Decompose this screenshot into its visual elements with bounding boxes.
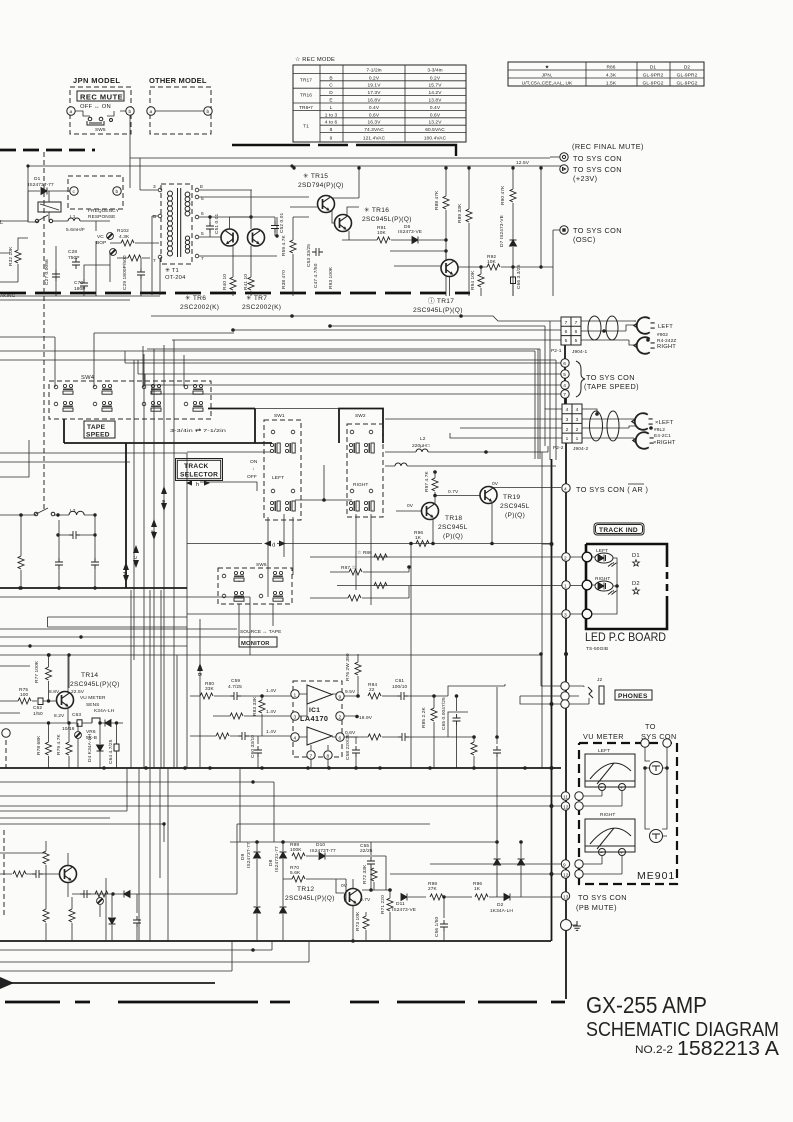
svg-text:R41 10: R41 10: [243, 274, 249, 290]
svg-text:R38 470: R38 470: [281, 270, 287, 289]
svg-text:6: 6: [565, 329, 568, 335]
svg-text:0V: 0V: [341, 883, 348, 889]
svg-text:TS-50GIB: TS-50GIB: [586, 646, 608, 652]
svg-text:R32 10K: R32 10K: [8, 246, 14, 266]
svg-text:D: D: [329, 90, 333, 96]
svg-text:R83 33K: R83 33K: [252, 696, 258, 716]
pin 13 PB MUTE: [561, 892, 569, 900]
dashed edge mark: [3, 830, 5, 915]
resistor vertical2: [43, 909, 49, 922]
wire led/vu feeds from bus: [542, 543, 552, 545]
svg-text:4: 4: [563, 383, 566, 389]
svg-text:R88 47K: R88 47K: [434, 190, 440, 210]
wire pp collectors: [230, 190, 278, 277]
svg-text:8: 8: [327, 754, 330, 760]
wire emitter rail: [0, 291, 251, 300]
svg-text:3: 3: [153, 184, 156, 190]
svg-text:e: e: [161, 500, 167, 503]
wire monitor rail: [187, 544, 552, 769]
svg-text:C51 0.01: C51 0.01: [214, 213, 220, 234]
table text: [299, 67, 447, 141]
wire shielded pair 1: [581, 321, 636, 340]
svg-text:VU METER: VU METER: [583, 732, 624, 741]
svg-text:2: 2: [576, 427, 579, 433]
svg-text:16.3V: 16.3V: [367, 120, 381, 126]
arrow d2: [264, 541, 286, 547]
svg-text:SENS: SENS: [86, 702, 99, 708]
svg-text:5: 5: [565, 338, 568, 344]
svg-text:0.7V: 0.7V: [360, 897, 371, 903]
svg-text:14.2V: 14.2V: [428, 90, 442, 96]
wire to transformer: [56, 241, 141, 296]
svg-text:OFF: OFF: [247, 474, 257, 480]
svg-text:TRACK IND: TRACK IND: [599, 527, 638, 534]
arrow g: [197, 663, 203, 671]
svg-text:ME901: ME901: [637, 870, 675, 882]
diode feed: [124, 891, 130, 898]
diode bottom: [109, 918, 116, 924]
bottom transistor Q: [60, 866, 77, 883]
svg-text:4.3K: 4.3K: [119, 234, 130, 240]
svg-text:750P: 750P: [68, 255, 80, 261]
wire: [0, 853, 237, 897]
svg-text:MONITOR: MONITOR: [241, 641, 270, 647]
svg-text:TO SYS CON: TO SYS CON: [573, 165, 622, 174]
svg-text:NO.2-2: NO.2-2: [635, 1044, 673, 1056]
svg-text:1.4V: 1.4V: [266, 729, 277, 735]
svg-text:7-1/2in: 7-1/2in: [366, 67, 382, 73]
svg-text:R59 4.7K: R59 4.7K: [281, 234, 287, 256]
svg-text:9: 9: [563, 863, 566, 869]
svg-text:18.9V: 18.9V: [359, 715, 373, 721]
wire top rail TR12: [230, 841, 497, 843]
transistor TR18: [422, 503, 439, 520]
wire: [75, 111, 126, 116]
wire: [28, 190, 70, 192]
svg-text:R79 4.7K: R79 4.7K: [56, 733, 62, 755]
svg-text:JPN,: JPN,: [542, 73, 553, 79]
svg-text:R72 33K: R72 33K: [362, 864, 368, 884]
svg-text:2SC945L: 2SC945L: [438, 524, 468, 531]
label TAPE SPEED box: [84, 421, 115, 438]
IC1 dashed box: [293, 681, 342, 757]
wire meterR hookup: [583, 856, 622, 874]
svg-text:✳ TR15: ✳ TR15: [303, 172, 328, 180]
svg-text:6: 6: [563, 361, 566, 367]
svg-text:D11: D11: [396, 901, 405, 907]
svg-text:LEFT: LEFT: [272, 475, 284, 481]
svg-text:L2: L2: [420, 436, 426, 442]
svg-text:0.4V: 0.4V: [369, 105, 380, 111]
svg-text:+: +: [620, 787, 623, 792]
parts table grid: [508, 62, 704, 86]
svg-text:R102: R102: [117, 228, 129, 234]
svg-text:TAPE: TAPE: [87, 424, 106, 431]
board top terminals: [641, 739, 649, 747]
svg-text:TR16: TR16: [300, 92, 312, 98]
svg-text:R76 2W 390: R76 2W 390: [345, 653, 351, 681]
board terminals: [582, 552, 592, 562]
wire right bus thin: [541, 452, 543, 768]
svg-text:60.5VAC: 60.5VAC: [425, 127, 445, 133]
head LEFT (record): [634, 317, 655, 334]
svg-text:☆ R86: ☆ R86: [357, 550, 372, 556]
svg-text:B: B: [329, 75, 332, 81]
pin rec final mute: [560, 153, 568, 161]
svg-text:2: 2: [564, 556, 567, 562]
svg-text:RIGHT: RIGHT: [600, 812, 615, 818]
svg-text:LED P.C BOARD: LED P.C BOARD: [585, 630, 666, 644]
svg-text:B: B: [153, 214, 156, 220]
wire TR14 collector: [67, 655, 69, 692]
wire bus row G: [0, 360, 556, 406]
wire mid rails: [0, 712, 20, 714]
svg-text:PHONES: PHONES: [618, 693, 648, 700]
svg-text:13: 13: [563, 895, 569, 901]
pin +23V: [560, 165, 568, 173]
transformer T1 primary winding: [168, 191, 173, 196]
op-amp A: [307, 685, 332, 704]
svg-text:a: a: [70, 110, 73, 115]
label TRACK IND box: [594, 523, 644, 535]
JPN model dashed box: [70, 87, 131, 134]
svg-text:1.4V: 1.4V: [266, 688, 277, 694]
svg-text:RIGHT: RIGHT: [353, 482, 368, 488]
wire L2: [385, 446, 556, 466]
svg-text:d: d: [123, 572, 129, 575]
svg-text:3: 3: [576, 417, 579, 423]
ground: [561, 920, 572, 931]
OTHER model dashed box: [150, 87, 211, 134]
svg-text:100: 100: [20, 692, 29, 698]
svg-text:TR18: TR18: [445, 515, 462, 522]
wire to pin3: [230, 713, 243, 719]
svg-text:1.4V: 1.4V: [266, 709, 277, 715]
svg-text:LA4170: LA4170: [300, 714, 328, 723]
resistor lower: [471, 742, 477, 755]
svg-text:R90 47K: R90 47K: [500, 185, 506, 205]
label PHONES box: [615, 690, 652, 700]
svg-text:d: d: [272, 543, 275, 549]
svg-text:D10: D10: [316, 842, 325, 848]
wire connector2 feeds: [385, 408, 562, 438]
svg-text:D2: D2: [632, 581, 640, 587]
svg-text:D1: D1: [34, 176, 41, 182]
coil choke: [69, 511, 84, 515]
svg-text:L: L: [330, 105, 333, 111]
diode D2b: [504, 894, 510, 901]
page cut line top-left: [0, 149, 95, 152]
svg-text:IS2473T-77: IS2473T-77: [246, 842, 252, 868]
wire: [80, 221, 110, 231]
svg-text:✳ TR6: ✳ TR6: [185, 294, 206, 302]
capacitor mid: [69, 531, 80, 539]
vertical bus right: [538, 321, 556, 460]
svg-text:6: 6: [575, 329, 578, 335]
svg-text:SELECTOR: SELECTOR: [180, 472, 218, 479]
wire lower rails: [0, 941, 309, 971]
svg-text:REC MUTE: REC MUTE: [80, 93, 123, 102]
svg-text:R86: R86: [606, 65, 615, 71]
svg-text:h: h: [196, 482, 199, 488]
svg-text:2SC945L(P)(Q): 2SC945L(P)(Q): [285, 895, 335, 902]
svg-text:b: b: [207, 109, 210, 115]
svg-text:D2: D2: [497, 902, 504, 908]
pot bottom: [97, 898, 104, 905]
svg-text:TRACK: TRACK: [184, 463, 209, 470]
terminal b: [126, 107, 134, 115]
wire base feed: [390, 240, 446, 251]
wire bus row C: [233, 329, 561, 331]
svg-text:3: 3: [564, 613, 567, 619]
wire verticals center-bottom: [240, 768, 497, 842]
svg-text:OTHER MODEL: OTHER MODEL: [149, 76, 207, 85]
wire: [550, 156, 560, 158]
svg-text:(PB MUTE): (PB MUTE): [576, 903, 617, 912]
svg-text:−: −: [600, 852, 603, 857]
REC MUTE box: [77, 91, 124, 101]
wire pb mute line: [408, 896, 561, 898]
transistor Q-pp1: [221, 229, 238, 246]
capacitor pair: [55, 558, 63, 569]
svg-text:R77 100K: R77 100K: [34, 660, 40, 683]
svg-text:121.4VAC: 121.4VAC: [363, 136, 386, 142]
svg-text:17.3V: 17.3V: [367, 90, 381, 96]
svg-text:5: 5: [563, 372, 566, 378]
svg-text:13.2V: 13.2V: [428, 120, 442, 126]
svg-text:4: 4: [566, 407, 569, 413]
svg-text:C61: C61: [395, 678, 404, 684]
svg-text:9.5V: 9.5V: [345, 689, 356, 695]
svg-text:R89 33K: R89 33K: [457, 203, 463, 223]
svg-text:VU METER: VU METER: [80, 695, 106, 701]
svg-text:1K: 1K: [474, 886, 481, 892]
svg-text:U/T,C5A,CEE,AAL, UK: U/T,C5A,CEE,AAL, UK: [522, 81, 573, 87]
frequency response dashed box: [68, 176, 123, 209]
svg-text:GL-9PR2: GL-9PR2: [677, 73, 698, 79]
svg-text:8.2V: 8.2V: [54, 713, 65, 719]
svg-text:(OSC): (OSC): [573, 235, 596, 244]
svg-text:GL-9PR2: GL-9PR2: [643, 73, 664, 79]
wire IC internals: [299, 694, 358, 768]
svg-text:R40 10: R40 10: [222, 274, 228, 290]
svg-text:6: 6: [339, 736, 342, 742]
pin 4: [561, 381, 569, 389]
svg-text:K34A-LH: K34A-LH: [94, 708, 115, 714]
svg-text:TR12: TR12: [297, 886, 314, 893]
wire transformer hookups: [140, 158, 309, 295]
wire lamp loop: [645, 747, 667, 836]
svg-text:L3: L3: [70, 508, 76, 514]
LED PC board box: [586, 544, 667, 629]
page cut line mid: [0, 292, 470, 295]
switch SW1 dashed box: [264, 420, 301, 520]
svg-text:1: 1: [294, 693, 297, 699]
svg-text:9: 9: [330, 136, 333, 142]
resistor: [13, 871, 26, 877]
svg-text:10/16: 10/16: [62, 726, 75, 732]
svg-text:L: L: [0, 220, 4, 226]
svg-text:R78 68K: R78 68K: [36, 735, 42, 755]
svg-text:100K: 100K: [290, 847, 302, 853]
svg-text:6: 6: [201, 211, 204, 217]
diode D5: [105, 720, 111, 727]
wire: [28, 191, 49, 222]
svg-text:2SC945L: 2SC945L: [500, 503, 530, 510]
svg-text:5.6mH/F: 5.6mH/F: [66, 227, 85, 233]
svg-text:0.7V: 0.7V: [448, 489, 459, 495]
svg-text:✳ TR7: ✳ TR7: [246, 294, 267, 302]
resistor vertical3: [69, 909, 75, 922]
svg-text:f: f: [151, 530, 157, 532]
wire led returns: [592, 557, 617, 614]
SW1 contacts: [271, 430, 275, 434]
resistor left: [18, 556, 24, 569]
arrow h: [186, 480, 210, 485]
svg-text:(REC FINAL MUTE): (REC FINAL MUTE): [572, 142, 644, 151]
pin 2: [562, 553, 570, 561]
svg-text:SW6: SW6: [256, 562, 267, 568]
svg-text:C62: C62: [33, 705, 42, 711]
wire base rail: [362, 889, 390, 891]
diode right2: [518, 859, 525, 865]
svg-text:R85 2.2K: R85 2.2K: [421, 706, 427, 728]
svg-text:R93 100K: R93 100K: [328, 266, 334, 289]
svg-text:7: 7: [310, 754, 313, 760]
svg-text:220µH□: 220µH□: [412, 443, 430, 449]
svg-text:R73 10K: R73 10K: [355, 911, 361, 931]
pin 9: [561, 860, 569, 868]
svg-text:GL-9PG2: GL-9PG2: [677, 81, 698, 87]
pin 5: [561, 370, 569, 378]
wire top rail: [130, 115, 550, 188]
svg-text:5: 5: [575, 338, 578, 344]
svg-text:↓: ↓: [252, 467, 255, 472]
svg-text:100/10: 100/10: [392, 684, 408, 690]
VU board dashed box: [579, 743, 677, 884]
svg-text:4: 4: [576, 407, 579, 413]
label MONITOR box: [239, 637, 277, 647]
svg-text:1 to 3: 1 to 3: [325, 112, 338, 118]
svg-text:5: 5: [201, 231, 204, 237]
resistor vertical: [43, 851, 49, 864]
wire heavy main: [64, 409, 383, 444]
svg-text:4 to 6: 4 to 6: [325, 120, 338, 126]
pin 12: [561, 802, 569, 810]
lamp 2: [650, 830, 663, 843]
svg-text:SOURCE ↔ TAPE: SOURCE ↔ TAPE: [240, 629, 281, 635]
terminal a: [67, 107, 75, 115]
wire bus row A: [151, 316, 561, 321]
svg-text:C56 1/50: C56 1/50: [434, 916, 440, 937]
svg-text:2SC2002(K): 2SC2002(K): [180, 304, 219, 311]
svg-text:3: 3: [566, 417, 569, 423]
svg-text:100.4VAC: 100.4VAC: [424, 136, 447, 142]
transformer pins: [158, 188, 162, 192]
wire row feeds under SW4: [0, 453, 187, 462]
capacitor: [32, 870, 43, 878]
pin 4 AR: [562, 484, 570, 492]
pin OSC: [560, 226, 568, 234]
svg-text:TR6•7: TR6•7: [299, 105, 313, 111]
svg-text:9: 9: [339, 695, 342, 701]
svg-text:IS2473-VE: IS2473-VE: [392, 907, 416, 913]
diode D11: [401, 894, 407, 901]
svg-text:1.5K: 1.5K: [606, 81, 617, 87]
svg-text:C64 4.7/25: C64 4.7/25: [108, 739, 114, 764]
svg-text:8.8V: 8.8V: [49, 689, 60, 695]
svg-text:R71 220: R71 220: [380, 895, 386, 914]
svg-text:19.1V: 19.1V: [367, 83, 381, 89]
svg-text:10K: 10K: [377, 230, 387, 236]
wire phones feed: [448, 684, 561, 737]
wire SW6 drops: [0, 581, 273, 638]
wire mid verticals to bottom: [139, 619, 200, 941]
wire TR15/16: [290, 168, 359, 240]
svg-text:TR19: TR19: [503, 494, 520, 501]
svg-text:GL-9PG2: GL-9PG2: [643, 81, 664, 87]
head RIGHT (play): [633, 432, 654, 449]
svg-text:TO SYS CON: TO SYS CON: [586, 373, 635, 382]
svg-text:P2-1: P2-1: [551, 348, 562, 354]
svg-text:IS2473-VE: IS2473-VE: [398, 229, 422, 235]
svg-text:16.8V: 16.8V: [367, 98, 381, 104]
SW4 contacts row2: [54, 401, 203, 411]
svg-text:0.2V: 0.2V: [369, 75, 380, 81]
svg-text:R87 ☆: R87 ☆: [341, 565, 357, 571]
resistor pair lower: [374, 583, 387, 589]
pin 12b: [561, 870, 569, 878]
transformer T1 dashed box: [161, 184, 192, 264]
svg-text:2SC945L(P)(Q): 2SC945L(P)(Q): [362, 216, 412, 223]
svg-text:D1: D1: [632, 553, 640, 559]
wire: [342, 239, 437, 241]
dashed vertical guide: [43, 152, 45, 510]
svg-text:JPN MODEL: JPN MODEL: [73, 76, 120, 85]
vertical signal bundle: [125, 443, 127, 588]
svg-text:2SC945L(P)(Q): 2SC945L(P)(Q): [413, 307, 463, 314]
page cut line bottom: [5, 1001, 565, 1004]
wire led feeds: [187, 557, 583, 614]
wire bus row F: [0, 351, 535, 459]
wire bottom rails: [0, 587, 187, 589]
svg-text:OFF ↔ ON: OFF ↔ ON: [80, 104, 111, 110]
svg-text:SW5: SW5: [95, 127, 106, 133]
capacitor lower: [493, 746, 501, 757]
svg-text:LEFT: LEFT: [658, 324, 673, 330]
svg-text:SPEED: SPEED: [86, 432, 110, 439]
arrow bottom left: [0, 977, 14, 989]
svg-text:TR17: TR17: [300, 78, 312, 84]
svg-text:ⓘ TR17: ⓘ TR17: [428, 297, 454, 305]
switch SW2 dashed box: [347, 424, 383, 517]
pin 3: [562, 610, 570, 618]
wire ch2 out: [368, 734, 381, 740]
transistor TR16: [335, 215, 352, 232]
svg-text:2SC945L(P)(Q): 2SC945L(P)(Q): [70, 681, 120, 688]
coil L1: [68, 218, 80, 221]
wire pin4 feed: [216, 733, 229, 739]
svg-text:☆ REC MODE: ☆ REC MODE: [295, 56, 335, 63]
svg-text:4.3K: 4.3K: [606, 73, 617, 79]
svg-text:E: E: [329, 98, 332, 104]
wire bus row D: [172, 339, 561, 341]
svg-text:J904-2: J904-2: [573, 446, 588, 452]
svg-text:0.4V: 0.4V: [430, 105, 441, 111]
wire SW1 drops: [268, 514, 371, 605]
svg-text:D8: D8: [268, 859, 274, 866]
svg-text:C53 33/25: C53 33/25: [306, 244, 312, 267]
